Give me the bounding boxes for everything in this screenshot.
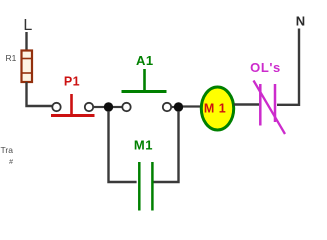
svg-text:OL's: OL's	[250, 60, 281, 75]
overload contact OL's	[254, 81, 286, 135]
wire junction to A1	[113, 106, 122, 108]
wire junction to coil M1	[183, 105, 202, 107]
svg-text:Tra: Tra	[1, 145, 14, 155]
wire fuse down and to P1	[27, 82, 53, 106]
fuse R1	[22, 51, 33, 83]
svg-text:R1: R1	[6, 53, 17, 63]
wire A1 to junction	[171, 106, 174, 108]
wire coil to OL's	[234, 103, 259, 105]
pushbutton P1	[51, 94, 95, 116]
junction dot left	[104, 102, 113, 111]
svg-text:A1: A1	[136, 53, 154, 68]
wire from L to fuse	[25, 32, 27, 51]
coil M1	[201, 87, 233, 130]
svg-text:#: #	[9, 159, 13, 166]
contact A1	[122, 69, 172, 111]
branch wire left down	[109, 111, 137, 182]
branch wire right down	[153, 111, 178, 182]
svg-text:M1: M1	[204, 102, 230, 116]
holding contact M1	[139, 162, 152, 211]
svg-text:M1: M1	[134, 138, 153, 153]
svg-text:P1: P1	[64, 75, 80, 89]
svg-text:N: N	[296, 14, 305, 29]
wire OL's to N	[277, 29, 299, 105]
svg-text:L: L	[23, 17, 32, 34]
wire P1 to junction	[93, 106, 104, 108]
junction dot right	[174, 102, 183, 111]
